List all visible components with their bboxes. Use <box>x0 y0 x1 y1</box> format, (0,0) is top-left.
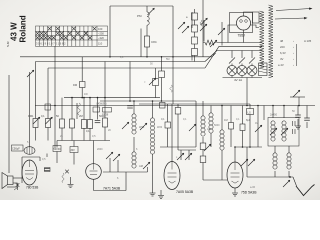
svg-text:a-06: a-06 <box>250 186 256 189</box>
svg-text:5M: 5M <box>166 58 169 61</box>
svg-text:DM1: DM1 <box>28 114 34 118</box>
svg-text:UKW(93): UKW(93) <box>96 102 107 106</box>
svg-text:1W: 1W <box>84 93 88 96</box>
svg-text:PM: PM <box>137 14 142 18</box>
svg-text:PF38: PF38 <box>102 113 109 117</box>
svg-text:0,1: 0,1 <box>41 114 45 118</box>
svg-text:1M: 1M <box>255 122 258 125</box>
svg-text:7A71 5A3B: 7A71 5A3B <box>103 187 121 191</box>
svg-text:6,3V: 6,3V <box>280 51 286 55</box>
svg-text:7S5J: 7S5J <box>238 34 246 38</box>
svg-text:2M: 2M <box>79 114 83 118</box>
svg-text:48: 48 <box>280 39 284 43</box>
svg-text:0,5: 0,5 <box>92 135 96 138</box>
svg-text:~320: ~320 <box>98 36 104 40</box>
svg-text:0,1: 0,1 <box>183 118 187 121</box>
svg-text:8µF: 8µF <box>246 118 251 122</box>
svg-text:220: 220 <box>280 45 285 49</box>
svg-text:0,1: 0,1 <box>161 117 165 121</box>
svg-text:A: A <box>210 41 212 45</box>
svg-text:0,5: 0,5 <box>42 158 46 161</box>
svg-text:›: › <box>293 39 294 43</box>
svg-text:0,1: 0,1 <box>120 56 124 59</box>
svg-text:0,1: 0,1 <box>236 118 240 121</box>
svg-text:›: › <box>293 63 294 67</box>
svg-text:0,1: 0,1 <box>86 129 90 133</box>
svg-text:75D 5A3B: 75D 5A3B <box>241 191 257 195</box>
svg-text:1M: 1M <box>224 118 228 122</box>
svg-text:110: 110 <box>98 41 103 45</box>
svg-text:›: › <box>293 45 294 49</box>
svg-text:43 W: 43 W <box>10 22 19 41</box>
svg-text:7A05 5A3B: 7A05 5A3B <box>176 190 194 194</box>
svg-text:C84: C84 <box>151 40 157 44</box>
svg-text:A 135: A 135 <box>304 39 312 43</box>
svg-text:50V30: 50V30 <box>54 148 62 151</box>
svg-text:2x450: 2x450 <box>270 113 278 117</box>
svg-text:AM: AM <box>139 164 143 168</box>
svg-text:780 53B: 780 53B <box>26 186 39 190</box>
svg-text:›: › <box>293 51 294 55</box>
svg-text:~250: ~250 <box>98 31 104 35</box>
svg-text:AM: AM <box>207 127 211 131</box>
svg-text:4V: 4V <box>280 57 284 61</box>
svg-text:5000: 5000 <box>214 124 220 127</box>
svg-text:30V: 30V <box>71 149 76 152</box>
svg-text:a 4V: a 4V <box>278 63 284 67</box>
svg-text:4V 1A: 4V 1A <box>234 78 242 82</box>
svg-text:›: › <box>293 57 294 61</box>
svg-text:DM: DM <box>73 83 77 87</box>
svg-text:W20: W20 <box>157 126 163 129</box>
svg-text:LS: LS <box>248 111 251 115</box>
svg-text:S-Nr: S-Nr <box>6 41 10 47</box>
svg-text:2000: 2000 <box>97 148 103 151</box>
svg-text:100: 100 <box>98 27 103 31</box>
svg-text:Roland: Roland <box>19 15 28 42</box>
svg-text:C50µF: C50µF <box>12 147 20 151</box>
svg-text:3 5 6 1 9 8 1 0 7 0 1 6: 3 5 6 1 9 8 1 0 7 0 1 6 8 2 <box>36 42 66 46</box>
